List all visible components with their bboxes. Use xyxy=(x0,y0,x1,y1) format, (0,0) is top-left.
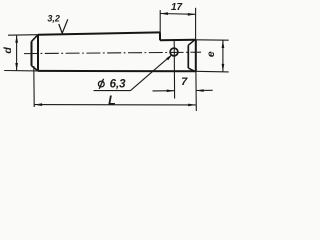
engineering drawing: headed clevis pin with cross hole xyxy=(0,0,235,124)
diameter symbol of hole callout xyxy=(98,81,104,87)
e dimension line xyxy=(222,40,224,71)
svg-text:L: L xyxy=(108,93,116,107)
leader shelf for hole callout xyxy=(94,90,131,92)
7 dimension line left part xyxy=(153,90,175,92)
right end face xyxy=(195,40,197,72)
right chamfer line xyxy=(187,45,189,68)
neck top line xyxy=(160,39,196,42)
e bottom extension line xyxy=(196,70,229,73)
arrowheads xyxy=(15,12,224,106)
7 dim arrow pointing right xyxy=(167,90,175,93)
e dim arrow down xyxy=(222,64,225,72)
step shoulder xyxy=(159,32,161,40)
d dim arrow up xyxy=(15,35,18,43)
7 dimension line right part xyxy=(196,89,213,91)
right chamfer bottom slant xyxy=(188,68,194,71)
pin body top line xyxy=(38,32,160,34)
L left extension line xyxy=(33,66,35,107)
leader line to hole xyxy=(131,55,172,91)
17 dim arrow left xyxy=(160,12,168,15)
17 dimension line xyxy=(160,13,195,16)
pin bottom line xyxy=(38,70,196,72)
left chamfer line xyxy=(37,35,39,71)
17 right extension line xyxy=(195,8,197,40)
d dimension line xyxy=(16,35,18,71)
svg-text:6,3: 6,3 xyxy=(110,79,127,91)
d dim arrow down xyxy=(15,63,18,71)
leader arrowhead xyxy=(166,54,172,60)
7 dim arrow pointing left xyxy=(196,89,204,92)
d bottom extension line xyxy=(4,70,38,72)
e dim arrow up xyxy=(222,40,225,48)
17 dim arrow right xyxy=(188,13,196,16)
svg-text:3,2: 3,2 xyxy=(47,13,60,23)
right chamfer top slant xyxy=(188,40,194,45)
17 left extension line xyxy=(159,10,161,32)
left chamfer top slant xyxy=(32,35,39,42)
left end face xyxy=(31,41,33,65)
roughness mark 3,2 xyxy=(59,19,68,33)
left chamfer bottom slant xyxy=(32,66,39,71)
L dim arrow left xyxy=(34,103,42,106)
svg-text:17: 17 xyxy=(171,2,183,13)
right lower extension line xyxy=(195,71,197,111)
cotter pin hole xyxy=(170,48,178,56)
axis centerline xyxy=(24,52,201,53)
svg-text:7: 7 xyxy=(181,76,188,88)
hole centre extension line xyxy=(173,41,175,99)
e top extension line xyxy=(196,39,229,41)
L dimension line xyxy=(34,104,196,106)
d top extension line xyxy=(8,34,38,37)
svg-text:e: e xyxy=(205,51,217,57)
svg-text:d: d xyxy=(2,47,14,54)
L dim arrow right xyxy=(188,104,196,107)
